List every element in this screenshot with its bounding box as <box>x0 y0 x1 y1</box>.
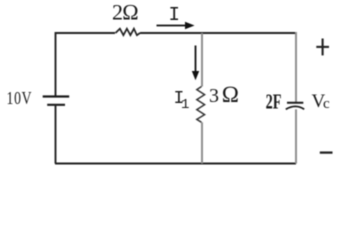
resistor R1 2Ω zigzag <box>116 29 141 36</box>
voltage source V1 10V battery <box>43 97 69 105</box>
current arrow I1 <box>192 46 199 81</box>
label plus polarity <box>316 39 329 56</box>
wire right vertical (bottom) <box>295 109 297 163</box>
label minus polarity <box>320 151 333 153</box>
wire right vertical (top) <box>295 32 297 103</box>
resistor R2 3Ω zigzag <box>197 87 205 123</box>
wire bottom <box>55 163 296 165</box>
wire top-right segment <box>140 32 296 34</box>
wire middle vertical (top) <box>201 33 203 87</box>
svg-text:3Ω: 3Ω <box>209 82 239 107</box>
wire top-left segment <box>55 32 115 34</box>
current arrow I <box>157 22 195 29</box>
capacitor C1 2F <box>286 103 304 110</box>
wire left vertical (below battery) <box>55 105 57 164</box>
wire left vertical (top of battery) <box>55 32 57 96</box>
svg-text:I: I <box>169 4 180 26</box>
svg-text:2F: 2F <box>266 90 282 113</box>
wire middle vertical (bottom) <box>201 122 203 163</box>
svg-text:2Ω: 2Ω <box>112 0 139 25</box>
svg-text:10V: 10V <box>7 89 33 108</box>
